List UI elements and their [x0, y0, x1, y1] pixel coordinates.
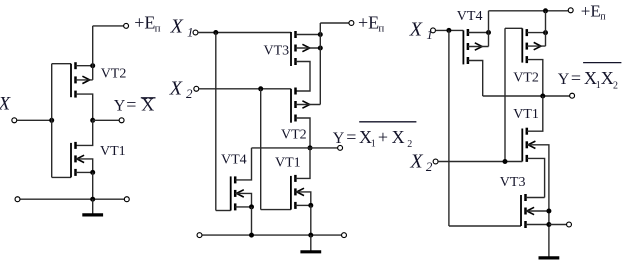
svg-text:+E: +E: [358, 13, 379, 33]
label Y = X-bar (left circuit): [114, 94, 156, 114]
wire VT1 source to VT3 drain: [527, 158, 545, 197]
wire VT3 source stub: [296, 34, 321, 36]
label VT2 (left circuit): [101, 67, 127, 82]
wire VT2 source to output: [296, 118, 311, 148]
svg-text:+E: +E: [134, 13, 155, 33]
junction output node Y (left circuit): [90, 118, 95, 123]
node +E terminal (right circuit): [568, 8, 573, 13]
wire VT3 source to terminal: [549, 224, 567, 226]
wire VT2 substrate stub: [527, 45, 546, 47]
wire VT2 substrate stub: [76, 79, 93, 81]
node +E terminal (middle circuit): [349, 21, 354, 26]
wire +E rail horizontal (middle circuit): [320, 22, 349, 24]
transistor VT1 (NMOS, right circuit): [522, 128, 535, 162]
svg-text:=: =: [346, 127, 356, 147]
wire X2 bus vertical: [260, 89, 262, 210]
wire VT3 source stub: [526, 224, 549, 226]
wire +E rail horizontal: [93, 25, 124, 27]
wire VT3 substrate stub: [526, 210, 549, 212]
wire X1 input to VT4 gate: [436, 29, 464, 31]
junction VT3 substrate / +E rail: [318, 46, 323, 51]
wire gate bus to VT2 gate: [52, 63, 71, 65]
label VT1 (left circuit): [100, 144, 126, 159]
svg-text:X: X: [169, 77, 183, 99]
node X2 input terminal (right circuit): [433, 159, 438, 164]
svg-text:X: X: [409, 19, 423, 41]
svg-text:п: п: [600, 11, 606, 22]
label X1 input (right circuit): [409, 19, 433, 43]
wire X2 bus to VT1 gate: [261, 209, 291, 211]
svg-text:+E: +E: [581, 1, 601, 20]
wire VT4 substrate stub: [468, 46, 489, 48]
svg-text:п: п: [378, 23, 384, 35]
wire VT4 source stub: [235, 206, 251, 208]
wire VT1 substrate to ground: [527, 145, 549, 256]
node X1 input terminal (right circuit): [431, 28, 436, 33]
wire VT4 source to ground rail: [251, 207, 253, 235]
wire VT2 drain to output node: [527, 60, 543, 96]
junction VT1 source / substrate (middle): [308, 203, 313, 208]
wire X2 bus vertical (right): [504, 28, 506, 161]
wire X1 input to VT3 gate: [198, 32, 291, 34]
wire gate bus to VT1 gate: [52, 176, 71, 178]
wire VT1 substrate stub: [295, 192, 310, 206]
node ground rail right terminal (middle circuit): [342, 233, 347, 238]
junction X1 bus / X1 wire: [213, 30, 218, 35]
transistor VT3 (NMOS, right circuit): [521, 194, 534, 228]
wire X1 bus to VT4 gate: [216, 210, 231, 212]
svg-text:=: =: [571, 68, 581, 88]
svg-text:VT3: VT3: [500, 175, 526, 190]
junction X1 bus / X1 wire (right): [446, 28, 451, 33]
svg-text:1: 1: [426, 27, 433, 42]
label X1 input (middle circuit): [170, 16, 194, 40]
wire X2 input to VT1 gate: [438, 161, 522, 163]
wire +E drop to VT4 (right): [488, 11, 490, 47]
label Y = not(X1X2) (right circuit): [558, 63, 622, 92]
label +Eп supply (right circuit): [581, 1, 606, 22]
label X2 input (middle circuit): [169, 77, 193, 101]
junction VT3 source / +E rail: [318, 32, 323, 37]
svg-text:X: X: [601, 68, 614, 88]
svg-text:п: п: [155, 23, 161, 35]
svg-text:2: 2: [407, 139, 412, 150]
label VT4 (right circuit): [457, 9, 483, 24]
wire VT4 drain to output line: [235, 148, 251, 180]
node X2 input terminal (middle circuit): [194, 86, 199, 91]
wire VT2 source stub: [76, 65, 93, 67]
wire VT2 drain stub: [76, 94, 93, 120]
junction gate bus / X input: [49, 118, 54, 123]
wire VT1 substrate stub: [76, 159, 93, 173]
wire VT2 source stub: [527, 32, 546, 34]
wire VT1 source stub: [295, 204, 310, 206]
node X input terminal (left circuit): [12, 118, 17, 123]
junction X2 bus / X2 wire: [258, 86, 263, 91]
node +E terminal (left circuit): [124, 23, 129, 28]
junction VT2 source / +E drop: [543, 30, 548, 35]
transistor VT2 (PMOS, right circuit): [522, 28, 541, 63]
label X input (left circuit): [0, 94, 12, 115]
svg-text:VT3: VT3: [264, 44, 290, 59]
svg-text:VT1: VT1: [513, 107, 539, 122]
junction +E rail / VT2 drop: [543, 8, 548, 13]
ground symbol (right circuit): [539, 256, 560, 258]
junction VT1 source / substrate: [90, 170, 95, 175]
svg-text:X: X: [409, 151, 423, 173]
label Y = not(X1+X2) (middle circuit): [333, 122, 417, 150]
junction X2 bus / X2 wire (right): [503, 159, 508, 164]
label VT3 (middle circuit): [264, 44, 290, 59]
transistor VT4 (NMOS, middle circuit): [231, 176, 244, 210]
wire VT4 drain to output line: [468, 61, 483, 97]
wire VT1 drain to output node: [295, 148, 310, 179]
wire ground rail (middle circuit): [202, 234, 341, 236]
label VT4 (middle circuit): [221, 152, 247, 167]
wire output line (middle circuit): [252, 147, 338, 149]
junction VT2 source / +E drop: [90, 63, 95, 68]
svg-text:VT2: VT2: [513, 70, 539, 85]
svg-text:X: X: [392, 127, 405, 147]
wire X2 input to VT2 gate: [199, 88, 291, 90]
junction ground rail / VT4 source: [249, 233, 254, 238]
wire VT3 drain to VT2 drain: [296, 62, 311, 92]
junction ground rail / VT1 source: [90, 197, 95, 202]
wire +E vertical (middle circuit): [319, 23, 321, 105]
label VT2 (middle circuit): [281, 127, 307, 142]
node ground rail right terminal (left circuit): [124, 197, 129, 202]
svg-text:Y: Y: [333, 130, 345, 147]
wire gate bus vertical: [51, 64, 53, 178]
junction VT3 source / ground drop: [546, 222, 551, 227]
label VT3 (right circuit): [500, 175, 526, 190]
node Y output terminal (left circuit): [119, 118, 124, 123]
node ground rail left terminal (middle circuit): [197, 233, 202, 238]
wire VT4 source stub: [468, 32, 489, 34]
wire VT1 source to ground rail: [310, 205, 312, 235]
wire X1 bus vertical (right): [448, 30, 450, 226]
wire output line (right circuit): [483, 95, 570, 97]
svg-text:Y: Y: [558, 71, 570, 88]
transistor VT1 (NMOS, middle circuit): [291, 175, 304, 210]
node Y output terminal (right circuit): [570, 93, 575, 98]
junction output node (right circuit): [540, 94, 545, 99]
svg-text:VT1: VT1: [275, 155, 301, 170]
svg-text:2: 2: [186, 86, 193, 101]
wire X2 bus to VT2 gate: [505, 27, 522, 29]
transistor VT1 (NMOS, left circuit): [71, 142, 84, 178]
node Y output terminal (middle circuit): [338, 145, 343, 150]
wire VT1 source stub: [76, 171, 93, 173]
transistor VT2 (PMOS, middle circuit): [291, 88, 310, 123]
junction VT3 substrate / ground drop: [546, 209, 551, 214]
svg-text:2: 2: [426, 159, 433, 174]
node source terminal (right circuit): [567, 222, 572, 227]
svg-text:Y: Y: [114, 97, 126, 114]
wire VT4 substrate stub: [235, 193, 251, 207]
wire VT1 source to ground rail: [92, 172, 94, 199]
node X1 input terminal (middle circuit): [193, 30, 198, 35]
label VT1 (right circuit): [513, 107, 539, 122]
wire VT1 drain to output node: [527, 96, 543, 131]
svg-text:+: +: [378, 127, 388, 147]
junction VT4 source / substrate: [249, 204, 254, 209]
label +Eп supply (left circuit): [134, 13, 160, 35]
ground symbol (middle circuit): [300, 235, 321, 252]
label VT1 (middle circuit): [275, 155, 301, 170]
wire +E drop vertical: [92, 26, 94, 80]
ground symbol (left circuit): [82, 199, 103, 215]
junction ground rail / VT1 source: [308, 233, 313, 238]
wire VT3 drain stub: [526, 197, 545, 199]
transistor VT3 (PMOS, middle circuit): [291, 31, 310, 66]
junction output node (middle circuit): [308, 145, 313, 150]
svg-text:2: 2: [613, 80, 618, 91]
label X2 input (right circuit): [409, 151, 433, 175]
wire ground rail (left circuit): [20, 198, 124, 200]
node ground rail left terminal (left circuit): [15, 197, 20, 202]
wire X input to gate bus: [17, 119, 52, 121]
svg-text:1: 1: [371, 138, 376, 149]
wire X1 bus vertical: [215, 33, 217, 211]
wire +E drop to VT2 (right): [545, 11, 547, 46]
label +Eп supply (middle circuit): [358, 13, 384, 35]
wire X1 bus to VT3 gate: [449, 225, 521, 227]
svg-text:X: X: [0, 94, 12, 115]
junction VT4 source / +E drop: [486, 30, 491, 35]
svg-text:VT1: VT1: [100, 144, 126, 159]
wire VT3 substrate stub: [296, 47, 321, 49]
svg-text:X: X: [170, 16, 184, 38]
svg-text:VT2: VT2: [281, 127, 307, 142]
svg-text:VT2: VT2: [101, 67, 127, 82]
wire VT1 drain stub: [76, 120, 93, 145]
wire +E rail (right circuit): [489, 10, 569, 12]
svg-text:VT4: VT4: [457, 9, 483, 24]
wire VT2 substrate stub: [296, 104, 321, 106]
transistor VT2 (PMOS, left circuit): [71, 62, 90, 97]
transistor VT4 (PMOS, right circuit): [463, 29, 482, 64]
svg-text:VT4: VT4: [221, 152, 247, 167]
label VT2 (right circuit): [513, 70, 539, 85]
svg-text:=: =: [126, 94, 136, 114]
wire output node to Y terminal: [93, 119, 119, 121]
svg-text:1: 1: [187, 24, 194, 39]
